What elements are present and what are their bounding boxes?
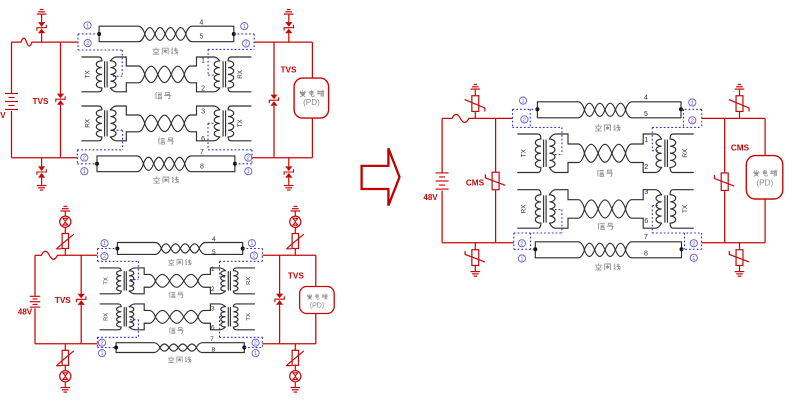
wire: varistor RV8 to ground (739, 266, 741, 272)
transformer T7 RX (circuit B row3 left) (100, 304, 121, 307)
wire: T7 fan into signal pair (circuit B) (144, 310, 155, 316)
node 1 marker (circuit C top-left) (520, 97, 527, 104)
svg-text:1: 1 (86, 23, 89, 29)
wire: GDT G2 to varistor RV2 (294, 228, 296, 234)
wire: TVS D6 branch from bottom rail (288, 158, 290, 167)
node 2 marker (circuit A top-left) (84, 40, 91, 47)
svg-text:TX: TX (237, 119, 244, 128)
dashed net: option-2 branch right (circuit B) (261, 249, 263, 262)
svg-text:2: 2 (103, 254, 106, 260)
wire: circuit B right shunt branch (279, 255, 281, 293)
svg-text:2: 2 (644, 164, 648, 171)
varistor RV6 (circuit C top-right) (736, 96, 743, 112)
dashed net: option-1 tap to pair 4/5 right (circuit C) (681, 108, 702, 110)
battery B3 48V (circuit C) (436, 172, 449, 174)
wire: ground to varistor RV6 (739, 89, 741, 96)
node dot: pair 7/8 left tap (circuit A) (95, 162, 99, 166)
svg-text:4: 4 (212, 236, 216, 243)
svg-text:7: 7 (200, 149, 204, 156)
svg-text:7: 7 (210, 336, 214, 343)
svg-text:2: 2 (100, 341, 103, 347)
node 1 marker (circuit A top-right) (241, 23, 248, 30)
wire: circuit C left shunt branch (495, 118, 497, 171)
svg-text:48V: 48V (18, 308, 33, 317)
svg-text:TVS: TVS (281, 66, 297, 75)
dashed net: option-2 branch bottom-left (circuit A) (76, 150, 78, 164)
svg-text:CMS: CMS (466, 178, 485, 187)
svg-text:(PD): (PD) (310, 302, 324, 309)
wire: circuit B PD feed bottom (315, 314, 317, 344)
wire: varistor RV5 to top rail (474, 112, 476, 119)
svg-text:2: 2 (523, 117, 526, 123)
wire: circuit A left rail (48V side) (11, 42, 13, 93)
battery B1 48V (circuit A) (5, 93, 18, 95)
svg-text:2: 2 (201, 85, 205, 92)
node 1 marker (circuit A bottom-left) (81, 168, 88, 175)
dashed net: option-1 tap to pair 7/8 right (circuit C) (682, 248, 702, 250)
varistor RV3 (circuit B bottom-left) (62, 350, 68, 365)
gas discharge tube G1 (circuit B top-left) (60, 216, 71, 227)
node dot: pair 7/8 right tap (circuit A) (233, 162, 237, 166)
twisted signal pair 1/2 (circuit C) (584, 144, 598, 153)
svg-text:1: 1 (692, 256, 695, 262)
wire: bottom rail to varistor RV7 (474, 243, 476, 250)
svg-text:TX: TX (246, 313, 252, 321)
transformer T10 RX (circuit C row2 right) (670, 134, 693, 139)
ground (circuit A top-right) (287, 9, 291, 11)
label idle-line (circuit C top) (595, 125, 601, 131)
node 2 marker (circuit B bottom-right) (252, 339, 259, 346)
svg-text:8: 8 (211, 346, 215, 353)
node dot: pair 7/8 right tap (circuit C) (680, 247, 684, 251)
wire: varistor RV7 to ground (474, 266, 476, 272)
dashed net: option-1 tap to pair 7/8 left (circuit A) (77, 163, 97, 165)
svg-text:2: 2 (691, 118, 694, 124)
wire: circuit C bottom rail right segment (702, 242, 766, 244)
twisted signal pair 1/2 (circuit B) (155, 274, 169, 280)
twisted pair 4/5 idle line (circuit C top) (536, 102, 538, 118)
ground (circuit C bottom-right) (735, 271, 745, 273)
node 2 marker (circuit C top-left) (521, 116, 528, 123)
wire: GDT G3 to ground (64, 382, 66, 387)
twisted signal pair 3/6 (circuit B) (155, 310, 169, 316)
node 1 marker (circuit B bottom-left) (98, 350, 105, 357)
dashed box around node 2 (circuit C top-left) (512, 109, 514, 127)
gas discharge tube G4 (circuit B bottom-right) (290, 371, 301, 382)
ground (circuit B bottom-left) (61, 387, 71, 389)
twisted pair 7/8 idle line (circuit B bottom) (115, 343, 117, 353)
dashed net: option-1 tap to pair 4/5 right (circuit B) (243, 248, 263, 250)
ground (circuit A top-left) (40, 9, 44, 11)
transformer T6 RX (circuit B row2 right) (233, 268, 254, 271)
svg-text:2: 2 (86, 41, 89, 47)
wire: circuit B top rail right segment (262, 254, 315, 256)
transformer T9 TX (circuit C row2 left) (518, 134, 541, 139)
fuse F3 (circuit C top rail) (452, 114, 469, 122)
svg-text:1: 1 (247, 169, 250, 175)
dashed net: option-2 branch right (circuit A) (253, 34, 255, 49)
wire: TVS D5 branch from bottom rail (41, 158, 43, 167)
dashed net: option-2 branch bottom-right (circuit C) (652, 232, 701, 234)
node 2 marker (circuit C bottom-left) (518, 240, 525, 247)
svg-text:1: 1 (644, 137, 648, 144)
wire: circuit C top rail right segment (702, 117, 765, 119)
TVS D1 (circuit A left shunt) (57, 94, 64, 99)
wire: fan into transformer T4 (circuit A) (184, 115, 196, 123)
svg-text:TVS: TVS (288, 271, 304, 280)
wire: TVS D4 to top rail (288, 33, 290, 42)
wire: circuit A PD feed top (311, 42, 313, 78)
node dot: pair 4/5 right tap (circuit B) (241, 247, 245, 251)
svg-text:RX: RX (682, 148, 689, 158)
node 1 marker (circuit B bottom-right) (252, 350, 259, 357)
label idle-line (circuit C bottom) (595, 264, 601, 270)
svg-text:6: 6 (201, 136, 205, 143)
dashed box around node 2 (circuit C top-right) (683, 109, 685, 127)
wire: circuit B PD feed top (315, 255, 317, 286)
wire: circuit B left rail (34, 255, 36, 296)
twisted signal pair 3/6 (circuit A) (145, 115, 158, 123)
wire: varistor RV6 to top rail (739, 112, 741, 119)
svg-text:48V: 48V (423, 193, 438, 202)
twisted pair 7/8 idle line (circuit A bottom) (96, 156, 98, 172)
wire: bottom rail to varistor RV3 (64, 344, 66, 351)
svg-text:2: 2 (520, 241, 523, 247)
svg-text:2: 2 (254, 341, 257, 347)
dashed net: option-1 tap to pair 7/8 left (circuit B) (97, 347, 116, 349)
node 2 marker (circuit A top-right) (242, 40, 249, 47)
transformer T8 TX (circuit B row3 right) (233, 304, 254, 307)
wire: circuit C PD feed bottom (764, 199, 766, 243)
transformer T2 RX (circuit A row2 right) (228, 57, 251, 61)
wire: circuit B top rail (35, 254, 41, 256)
node dot: pair 4/5 right tap (circuit C) (679, 107, 683, 111)
varistor RV7 (circuit C bottom-left) (472, 250, 479, 266)
node 2 marker (circuit A bottom-left) (81, 154, 88, 161)
svg-text:(PD): (PD) (756, 179, 773, 188)
svg-text:3: 3 (644, 189, 648, 196)
label signal (circuit B row2) (169, 292, 175, 298)
label PD box text (circuit C) (753, 170, 759, 176)
wire: circuit C top rail (442, 117, 452, 119)
wire: TVS D3 to top rail (41, 33, 43, 42)
dashed net: option-2 branch left (circuit A) (77, 34, 79, 50)
gas discharge tube G2 (circuit B top-right) (290, 216, 301, 227)
fuse F1 (circuit A top rail) (21, 38, 32, 46)
label signal (circuit C row3) (598, 223, 604, 229)
svg-text:6: 6 (211, 324, 215, 331)
svg-text:2: 2 (211, 286, 215, 293)
svg-text:5: 5 (644, 111, 648, 118)
wire: ground to GDT G1 (64, 211, 66, 216)
svg-text:1: 1 (691, 101, 694, 107)
svg-text:1: 1 (100, 351, 103, 357)
label signal (circuit B row3) (169, 328, 175, 334)
svg-text:4: 4 (644, 95, 648, 102)
svg-text:1: 1 (211, 266, 215, 273)
dashed net: option-1 tap to pair 4/5 left (circuit B) (98, 248, 118, 250)
label signal (circuit C row2) (597, 170, 603, 176)
svg-text:TX: TX (85, 70, 92, 79)
label signal (circuit A row2) (156, 92, 162, 98)
wire: varistor RV2 to top rail (294, 248, 296, 255)
svg-text:1: 1 (83, 169, 86, 175)
transformer T1 TX (circuit A row2 left) (82, 57, 102, 61)
wire: TVS D6 to ground (288, 178, 290, 185)
wire: circuit B bottom rail right segment (262, 343, 315, 345)
dashed net: option-1 tap to pair 4/5 left (circuit A) (78, 33, 99, 35)
wire: circuit A right shunt branch (273, 42, 275, 95)
svg-text:CMS: CMS (731, 144, 750, 153)
wire: circuit C right shunt branch (724, 118, 726, 172)
TVS D5 (circuit A bottom-left corner) (38, 166, 45, 171)
svg-text:8: 8 (644, 251, 648, 258)
wire: circuit C left rail (441, 118, 443, 172)
PD load box (circuit B) (300, 287, 335, 314)
svg-text:2: 2 (244, 42, 247, 48)
wire: stub ground to TVS D3 (41, 14, 43, 22)
svg-text:1: 1 (250, 241, 253, 247)
varistor CMS1 (circuit C left shunt) (492, 172, 499, 190)
wire: ground to TVS D4 (288, 14, 290, 22)
wire: varistor RV1 to top rail (64, 248, 66, 255)
svg-text:1: 1 (201, 57, 205, 64)
TVS D8 (circuit B right shunt) (276, 294, 283, 299)
twisted pair 4/5 idle line (circuit A top) (98, 26, 100, 42)
wire: fan into transformer T6 (circuit B) (198, 274, 211, 280)
svg-text:RX: RX (104, 313, 110, 321)
svg-text:7: 7 (644, 234, 648, 241)
wire: bottom rail to varistor RV4 (294, 344, 296, 351)
node dot: pair 7/8 right tap (circuit B) (242, 346, 246, 350)
label idle-line (circuit A top) (153, 48, 159, 54)
ground (circuit B top-left) (64, 205, 68, 207)
dashed net: option-2 branch bottom-left (circuit C) (514, 232, 562, 234)
TVS D7 (circuit B left shunt) (78, 294, 85, 299)
transformer T5 TX (circuit B row2 left) (100, 268, 121, 271)
wire: ground to varistor RV5 (474, 89, 476, 96)
node 2 marker (circuit C bottom-right) (690, 240, 697, 247)
node 1 marker (circuit A top-left) (84, 22, 91, 29)
label PD box text (circuit B) (307, 294, 312, 299)
node dot: pair 4/5 left tap (circuit B) (115, 247, 119, 251)
wire: fan into transformer T12 (circuit C) (625, 200, 643, 209)
svg-text:TX: TX (104, 277, 110, 285)
transformer T12 TX (circuit C row3 right) (670, 190, 693, 195)
node 2 marker (circuit B bottom-left) (98, 339, 105, 346)
wire: circuit C PD feed top (764, 118, 766, 155)
node 1 marker (circuit A bottom-right) (245, 168, 252, 175)
wire: bottom rail to varistor RV8 (739, 243, 741, 250)
varistor CMS2 (circuit C right shunt) (721, 173, 728, 191)
wire: T1 fan into signal pair (circuit A) (126, 66, 145, 74)
twisted pair 4/5 idle line (circuit B top) (116, 243, 118, 255)
node dot: pair 7/8 left tap (circuit B) (114, 346, 118, 350)
PD load box (circuit C) (746, 156, 783, 199)
dashed net: option-2 branch bottom-left (circuit B) (96, 337, 98, 347)
varistor RV8 (circuit C bottom-right) (736, 250, 743, 266)
wire: circuit B bottom rail left segment (35, 343, 97, 345)
wire: GDT G4 to ground (294, 382, 296, 387)
ground (circuit B top-right) (294, 205, 298, 207)
ground (circuit C top-right) (738, 84, 742, 86)
svg-text:RX: RX (85, 118, 92, 128)
varistor RV5 (circuit C top-left) (472, 96, 479, 112)
ground (circuit A bottom-left) (37, 185, 47, 187)
dashed net: option-2 branch left (circuit C) (513, 126, 562, 128)
node 1 marker (circuit C top-right) (689, 99, 696, 106)
dashed net: option-2 branch bottom-right (circuit A) (251, 150, 253, 164)
wire: T9 fan into signal pair (circuit C) (568, 144, 585, 153)
PD load box (circuit A) (294, 78, 329, 118)
svg-text:RX: RX (521, 204, 528, 214)
svg-text:2: 2 (252, 254, 255, 260)
wire: fan into transformer T10 (circuit C) (625, 144, 643, 153)
transformer T3 RX (circuit A row3 left) (82, 106, 102, 110)
transformer T4 TX (circuit A row3 right) (228, 106, 251, 110)
wire: ground to GDT G2 (294, 211, 296, 216)
block arrow (left circuits to right circuit) (362, 148, 400, 205)
wire: T3 fan into signal pair (circuit A) (126, 115, 145, 123)
node dot: pair 4/5 left tap (circuit C) (535, 107, 539, 111)
twisted signal pair 1/2 (circuit A) (145, 66, 158, 74)
wire: circuit C bottom rail left segment (442, 242, 514, 244)
gas discharge tube G3 (circuit B bottom-left) (60, 371, 71, 382)
svg-text:1: 1 (254, 351, 257, 357)
twisted pair 7/8 idle line (circuit C bottom) (534, 242, 536, 258)
dashed net: option-1 tap to pair 7/8 right (circuit B) (244, 347, 262, 349)
svg-text:4: 4 (199, 20, 203, 27)
svg-text:2: 2 (83, 156, 86, 162)
ground (circuit A bottom-right) (284, 185, 294, 187)
svg-text:TX: TX (682, 204, 689, 213)
svg-text:2: 2 (247, 156, 250, 162)
svg-text:1: 1 (522, 99, 525, 105)
TVS D4 (circuit A top-right corner) (285, 22, 292, 27)
dashed net: option-2 branch left (circuit B) (97, 249, 99, 262)
node dot: pair 4/5 left tap (circuit A) (97, 32, 101, 36)
wire: circuit B left shunt branch (80, 255, 82, 294)
TVS D2 (circuit A right shunt) (270, 95, 277, 100)
label PD box text (circuit A) (300, 91, 306, 97)
wire: circuit A left shunt branch (60, 42, 62, 94)
dashed box around node 2 (circuit C bottom-left) (513, 233, 515, 249)
dashed net: option-1 tap to pair 7/8 right (circuit A) (235, 163, 252, 165)
fuse F2 (circuit B top rail) (41, 251, 57, 259)
svg-text:5: 5 (212, 249, 216, 256)
wire: circuit A PD feed bottom (311, 118, 313, 158)
svg-text:TVS: TVS (55, 296, 71, 305)
TVS D6 (circuit A bottom-right corner) (285, 166, 292, 171)
node 2 marker (circuit C top-right) (689, 117, 696, 124)
node dot: pair 4/5 right tap (circuit A) (232, 32, 236, 36)
node 1 marker (circuit C bottom-left) (518, 255, 525, 262)
svg-text:RX: RX (246, 277, 252, 285)
svg-text:6: 6 (644, 218, 648, 225)
svg-text:3: 3 (211, 305, 215, 312)
label idle-line (circuit B top) (168, 259, 174, 265)
dashed net: option-2 branch right (circuit C) (652, 126, 701, 128)
TVS D3 (circuit A top-left corner) (38, 22, 45, 27)
svg-text:48V: 48V (0, 111, 6, 120)
dashed net: option-2 branch bottom-right (circuit B) (261, 337, 263, 347)
svg-text:5: 5 (199, 33, 203, 40)
ground (circuit C bottom-left) (471, 271, 481, 273)
wire: circuit A top rail right segment (254, 41, 312, 43)
node dot: pair 7/8 left tap (circuit C) (533, 247, 537, 251)
svg-text:1: 1 (520, 257, 523, 263)
node 2 marker (circuit B top-right) (250, 252, 257, 259)
svg-text:RX: RX (237, 69, 244, 79)
svg-text:1: 1 (103, 241, 106, 247)
wire: varistor RV4 to GDT G4 (294, 365, 296, 371)
node 1 marker (circuit C bottom-right) (690, 254, 697, 261)
svg-text:TVS: TVS (33, 97, 49, 106)
wire: fan into transformer T2 (circuit A) (184, 66, 196, 74)
varistor RV4 (circuit B bottom-right) (292, 350, 298, 365)
ground (circuit C top-left) (474, 84, 478, 86)
node 1 marker (circuit B top-right) (248, 240, 255, 247)
dashed net: option-1 tap to pair 7/8 left (circuit C) (514, 248, 536, 250)
dashed net: option-1 tap to pair 4/5 right (circuit A) (234, 33, 254, 35)
label idle-line (circuit B bottom) (168, 357, 174, 363)
wire: GDT G1 to varistor RV1 (64, 228, 66, 234)
svg-text:3: 3 (201, 108, 205, 115)
varistor RV2 (circuit B top-right) (292, 234, 298, 249)
twisted signal pair 3/6 (circuit C) (584, 200, 598, 209)
label idle-line (circuit A bottom) (154, 177, 160, 183)
label signal (circuit A row3) (158, 138, 164, 144)
wire: fan into transformer T8 (circuit B) (198, 310, 211, 316)
svg-text:2: 2 (692, 241, 695, 247)
ground (circuit B bottom-right) (291, 387, 301, 389)
svg-text:TX: TX (521, 148, 528, 157)
dashed net: option-1 tap to pair 4/5 left (circuit C) (513, 108, 538, 110)
wire: circuit A bottom rail right segment (253, 157, 313, 159)
battery B2 48V (circuit B) (30, 295, 41, 297)
wire: circuit A bottom rail left segment (12, 157, 78, 159)
node 2 marker (circuit A bottom-right) (245, 154, 252, 161)
transformer T11 RX (circuit C row3 left) (518, 190, 541, 195)
svg-text:(PD): (PD) (303, 98, 320, 107)
svg-text:8: 8 (200, 164, 204, 171)
wire: TVS D5 to ground (41, 178, 43, 185)
wire: varistor RV3 to GDT G3 (64, 365, 66, 371)
node 2 marker (circuit B top-left) (101, 253, 108, 260)
dashed box around node 2 (circuit C bottom-right) (684, 233, 686, 249)
node 1 marker (circuit B top-left) (101, 240, 108, 247)
wire: circuit A top rail left segment (12, 41, 22, 43)
wire: T11 fan into signal pair (circuit C) (568, 200, 585, 209)
wire: T5 fan into signal pair (circuit B) (144, 274, 155, 280)
svg-text:1: 1 (243, 24, 246, 30)
varistor RV1 (circuit B top-left) (62, 234, 68, 249)
